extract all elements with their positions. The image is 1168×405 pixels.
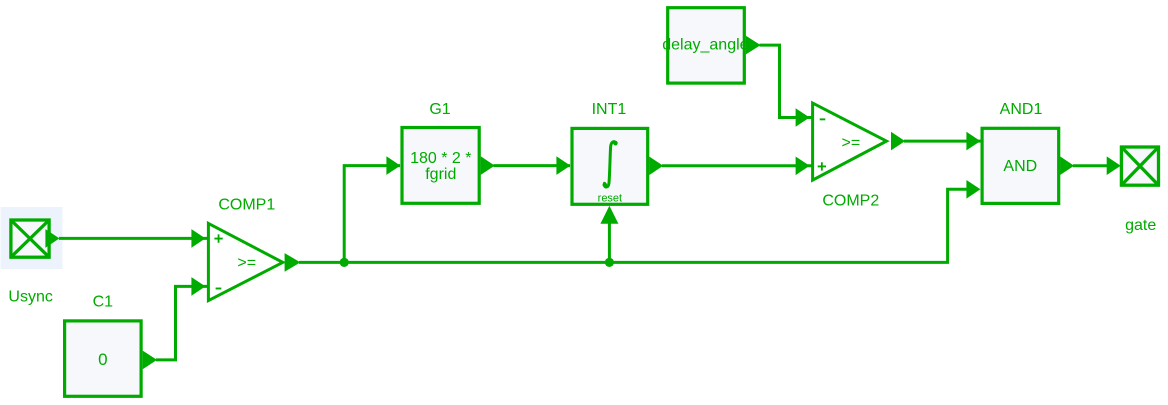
- wire C1 to COMP1 minus input: [156, 286, 208, 360]
- label gate: [1125, 217, 1156, 234]
- wire COMP2 to AND1 upper input: [904, 140, 981, 143]
- gain block G1: [402, 128, 495, 204]
- output port gate: [1121, 147, 1158, 185]
- junction node at INT1 reset branch: [605, 258, 614, 267]
- arrowhead into COMP2 plus input: [796, 157, 810, 176]
- svg-text:delay_angle: delay_angle: [662, 37, 748, 54]
- svg-text:reset: reset: [598, 192, 622, 204]
- svg-text:180 * 2 *: 180 * 2 *: [410, 150, 471, 167]
- arrowhead COMP2 output: [891, 132, 905, 151]
- arrowhead into gate port: [1107, 156, 1121, 175]
- wire INT1 to COMP2 plus input: [662, 164, 812, 167]
- svg-text:AND: AND: [1003, 158, 1037, 175]
- svg-text:gate: gate: [1125, 217, 1156, 234]
- arrowhead into COMP1 minus input: [191, 277, 205, 296]
- label COMP2: [822, 193, 879, 210]
- wire G1 to INT1: [494, 164, 571, 167]
- svg-text:G1: G1: [429, 101, 450, 118]
- svg-text:0: 0: [98, 350, 107, 369]
- constant block C1: [65, 321, 157, 396]
- label INT1: [592, 101, 627, 118]
- arrowhead into G1 input: [386, 156, 400, 175]
- selection highlight behind Usync port: [1, 207, 63, 269]
- arrowhead COMP1 output: [285, 253, 301, 272]
- svg-text:fgrid: fgrid: [425, 166, 456, 183]
- svg-text:>=: >=: [842, 135, 861, 152]
- wire AND1 to gate port: [1073, 164, 1108, 167]
- wire delay_angle to COMP2 minus input: [760, 45, 813, 117]
- label COMP1: [218, 197, 275, 214]
- svg-text:>=: >=: [237, 255, 256, 272]
- label G1: [429, 101, 450, 118]
- svg-text:C1: C1: [93, 294, 114, 311]
- svg-text:COMP2: COMP2: [822, 193, 879, 210]
- wire Usync to COMP1 plus input: [59, 237, 208, 240]
- arrowhead into COMP2 minus input: [796, 108, 810, 127]
- svg-text:INT1: INT1: [592, 101, 627, 118]
- main wire COMP1 output to AND1 lower input: [299, 189, 967, 262]
- label Usync: [8, 288, 52, 305]
- arrowhead into AND1 upper input: [966, 132, 980, 151]
- integrator INT1: [572, 128, 663, 204]
- arrowhead into INT1 reset input: [600, 206, 618, 224]
- arrowhead into COMP1 plus input: [191, 229, 205, 248]
- comparator COMP1: [208, 223, 282, 300]
- wire branch up to G1 input: [344, 166, 400, 263]
- wire branch up to INT1 reset: [608, 221, 611, 262]
- svg-text:COMP1: COMP1: [218, 197, 275, 214]
- svg-text:Usync: Usync: [8, 288, 52, 305]
- arrowhead into AND1 lower input: [966, 180, 980, 199]
- label C1: [93, 294, 114, 311]
- comparator COMP2: [813, 103, 887, 180]
- logic block AND1: [982, 128, 1074, 203]
- svg-text:AND1: AND1: [1000, 101, 1043, 118]
- block delay_angle: [662, 8, 760, 83]
- input port Usync: [11, 220, 60, 257]
- arrowhead into INT1 input: [556, 156, 570, 175]
- label AND1: [1000, 101, 1043, 118]
- junction node at G1 branch: [340, 258, 349, 267]
